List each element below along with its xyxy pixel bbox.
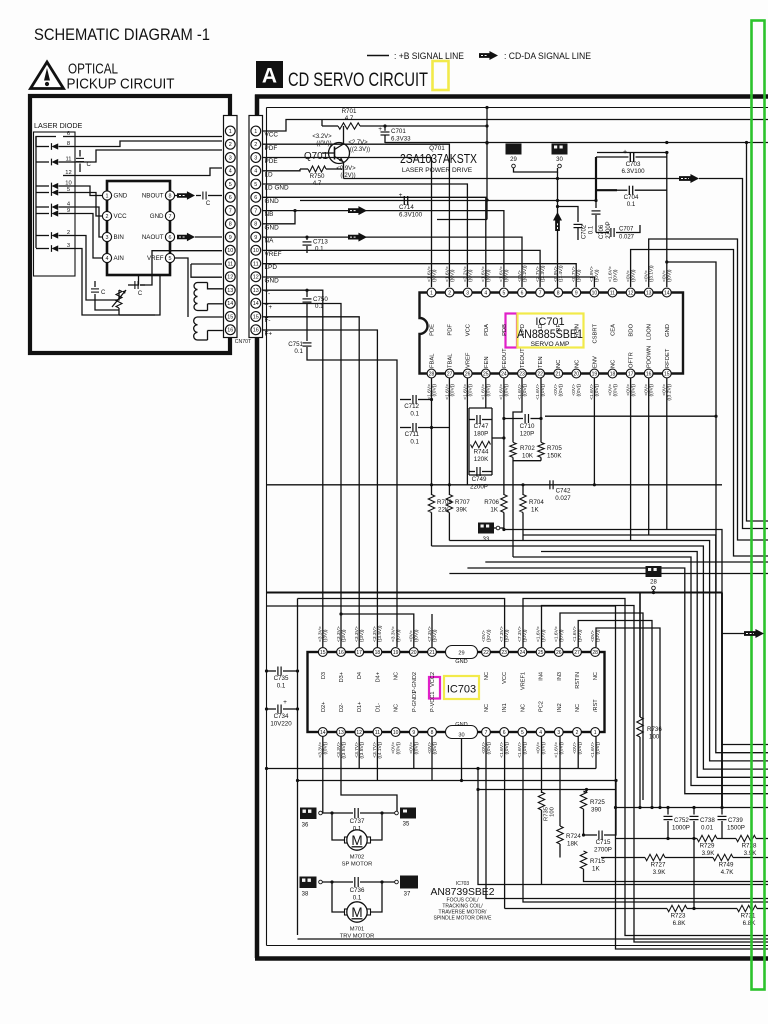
- wire y789 line: [478, 789, 616, 791]
- IC701 pin 22 TEN: [536, 369, 545, 378]
- svg-text:((3V)): ((3V)): [341, 629, 347, 642]
- IC703 pin 23 VCC: [500, 648, 509, 657]
- svg-text:LASER POWER DRIVE: LASER POWER DRIVE: [402, 167, 473, 174]
- svg-text:6: 6: [503, 730, 506, 736]
- svg-text:R705: R705: [547, 445, 562, 452]
- svg-text:VCC: VCC: [466, 324, 472, 336]
- svg-text:FEOUT: FEOUT: [502, 348, 508, 368]
- motor M701: [332, 882, 344, 912]
- resistor R705: [538, 442, 544, 457]
- svg-text:LDON: LDON: [647, 324, 653, 340]
- magenta highlight IC701: [506, 314, 518, 348]
- svg-text:27: 27: [574, 650, 580, 656]
- svg-text:NC: NC: [575, 704, 581, 712]
- wire NB to IC pin5: [263, 211, 504, 287]
- laser diode box: [34, 132, 76, 276]
- CN701 pin 5 LD GND: [251, 179, 261, 189]
- svg-text:35: 35: [403, 822, 410, 828]
- capacitor C749: [469, 471, 475, 473]
- svg-text:R725: R725: [590, 799, 605, 806]
- IC703 pin 10 NC: [391, 728, 400, 737]
- IC703 pin 5 NC: [518, 728, 527, 737]
- resistor R707: [446, 495, 452, 513]
- svg-text:C706: C706: [599, 224, 605, 239]
- wire pin4 drop: [541, 737, 543, 781]
- svg-text:FEN: FEN: [484, 356, 490, 368]
- svg-text:NC: NC: [520, 704, 526, 712]
- svg-text:((0V)): ((0V)): [431, 269, 437, 282]
- pickup IC pin 2 VCC: [102, 211, 111, 220]
- wire C738 drop: [693, 839, 695, 909]
- connector 35: [395, 811, 399, 815]
- svg-text:C742: C742: [556, 488, 571, 495]
- svg-text:1K: 1K: [490, 507, 498, 514]
- IC703 pin 1 /RST: [591, 728, 600, 737]
- CN701 pin 2 PDF: [251, 139, 261, 149]
- IC703 pin 20 P-GND2: [409, 648, 418, 657]
- svg-text:R727: R727: [651, 862, 666, 869]
- svg-text:R729: R729: [700, 843, 715, 850]
- svg-text:M702: M702: [350, 855, 365, 861]
- resistor R749: [713, 854, 733, 860]
- wire long y485: [267, 484, 723, 486]
- svg-text:C703: C703: [626, 161, 641, 168]
- wire T- down: [263, 290, 323, 647]
- CN70T pin 2: [225, 139, 235, 149]
- pickup wiring: [74, 136, 222, 138]
- capacitor C712: [400, 399, 411, 401]
- resistor R728: [736, 835, 756, 841]
- section label A: [256, 61, 283, 88]
- svg-text:8: 8: [557, 290, 560, 296]
- svg-text:C702: C702: [582, 224, 588, 239]
- connector 28: [646, 566, 662, 577]
- svg-text:28: 28: [592, 650, 598, 656]
- svg-text:AIN: AIN: [114, 255, 124, 262]
- CD-DA arrow right-top: [344, 178, 680, 180]
- CN701 pin 1 VCC: [251, 126, 261, 136]
- svg-text:SPINDLE MOTOR DRIVE: SPINDLE MOTOR DRIVE: [434, 915, 493, 921]
- svg-text:GND: GND: [114, 193, 128, 200]
- CN70T pin 11: [225, 259, 235, 269]
- capacitor C752: [667, 808, 669, 815]
- wire y807 rail: [616, 807, 768, 809]
- svg-text:((0V)): ((0V)): [449, 269, 455, 282]
- svg-text:26: 26: [556, 650, 562, 656]
- svg-text:14: 14: [253, 301, 259, 307]
- svg-text:F-: F-: [265, 317, 271, 324]
- connector CN70T left column: [224, 116, 238, 338]
- IC703 pin 12 D1+: [355, 728, 364, 737]
- svg-text:NC: NC: [394, 672, 400, 680]
- wire C702 branch: [558, 207, 579, 223]
- IC701 pin 20 NC: [572, 369, 581, 378]
- IC703 pin 29 GND oval: [446, 646, 478, 659]
- svg-text:((0V)): ((0V)): [414, 629, 420, 642]
- IC703 pin 27 RSTIN: [573, 648, 582, 657]
- resistor R736: [637, 717, 643, 737]
- capacitor C703: [596, 156, 629, 158]
- pickup IC pin 7 GND: [165, 211, 174, 220]
- svg-text:P-GND2: P-GND2: [412, 672, 418, 693]
- svg-text:1000P: 1000P: [672, 825, 690, 832]
- svg-text:0.1: 0.1: [410, 411, 419, 418]
- svg-text:VREF1: VREF1: [520, 672, 526, 690]
- svg-text:((0V)): ((0V)): [323, 742, 329, 755]
- resistor R750: [308, 166, 326, 172]
- wire C701 rail: [385, 142, 768, 144]
- svg-text:24: 24: [501, 371, 507, 377]
- svg-text:NC: NC: [593, 672, 599, 680]
- resistor R702: [510, 442, 516, 457]
- svg-text:C751: C751: [288, 341, 303, 348]
- svg-text:GND: GND: [665, 324, 671, 337]
- IC701 pin 24 FEOUT: [500, 369, 509, 378]
- IC703 pin 14 D2+: [318, 728, 327, 737]
- svg-text:11: 11: [610, 290, 615, 296]
- svg-text:6: 6: [169, 235, 172, 241]
- wire PDF to IC pin2: [263, 144, 449, 287]
- resistor R715: [580, 851, 586, 869]
- CN70T pin 12: [225, 272, 235, 282]
- svg-text:LPD: LPD: [520, 324, 526, 335]
- svg-text:((0V)): ((0V)): [432, 629, 438, 642]
- capacitor C742: [549, 480, 551, 489]
- svg-text:C701: C701: [391, 128, 406, 135]
- svg-text:OFTR: OFTR: [629, 352, 635, 368]
- pickup IC pin 5 VREF: [165, 253, 174, 262]
- svg-text:RF: RF: [556, 324, 562, 332]
- svg-text:17: 17: [628, 371, 634, 377]
- connector 37: [395, 880, 399, 884]
- CN701 pin 9 NA: [251, 232, 261, 242]
- svg-text:0.01: 0.01: [701, 825, 714, 832]
- wire y614 rail: [341, 614, 414, 647]
- resistor R723: [667, 905, 687, 911]
- svg-text:30: 30: [458, 733, 464, 739]
- wire pin12 drop to TRV: [358, 737, 360, 769]
- resistor R725: [584, 790, 587, 793]
- svg-text:15: 15: [320, 650, 326, 656]
- svg-text:13: 13: [253, 288, 259, 294]
- svg-text:((0V)): ((0V)): [612, 269, 618, 282]
- transistor Q701: [329, 143, 350, 164]
- CN701 pin 3 PDE: [251, 153, 261, 163]
- svg-text:C738: C738: [700, 817, 715, 824]
- svg-text:9: 9: [412, 730, 415, 736]
- svg-text:((0V)): ((0V)): [558, 384, 564, 397]
- IC703 pin 24 VREF1: [518, 648, 527, 657]
- wire bracket pin25: [560, 613, 643, 800]
- wire y768 rail: [267, 768, 597, 770]
- capacitor C near laser diode: [79, 150, 81, 157]
- wire pin12 up-over-down: [631, 250, 768, 557]
- svg-text:10: 10: [592, 290, 598, 296]
- svg-text:13: 13: [646, 290, 652, 296]
- svg-text:18K: 18K: [567, 841, 579, 848]
- CN701 pin 13 T-: [251, 285, 261, 295]
- svg-text:VREF: VREF: [466, 352, 472, 368]
- IC703 pin 22 NC: [482, 648, 491, 657]
- svg-text:Q701: Q701: [429, 145, 445, 152]
- wire right rail drop x746: [747, 143, 768, 522]
- CN70T pin 1: [225, 126, 235, 136]
- svg-text:D2+: D2+: [321, 702, 327, 712]
- capacitor C750: [305, 289, 308, 292]
- CD-DA arrow up: [553, 212, 562, 231]
- wire y908 rail: [505, 908, 667, 910]
- svg-text:19: 19: [393, 650, 399, 656]
- IC701 pin 21 NC: [554, 369, 563, 378]
- CN701 pin 7 NB: [251, 206, 261, 216]
- CN70T pin 3: [225, 153, 235, 163]
- svg-text:R715: R715: [590, 858, 605, 865]
- CN70T pin 13: [225, 285, 235, 295]
- capacitor C747 network: [469, 407, 492, 409]
- IC701 pin 15 RFDET: [662, 369, 671, 378]
- svg-text:((0V)): ((0V)): [486, 384, 492, 397]
- svg-text:<3.2V>: <3.2V>: [312, 134, 332, 140]
- svg-text:((3V)): ((3V)): [323, 629, 329, 642]
- svg-text:22: 22: [537, 371, 543, 377]
- svg-text:((3.5V)): ((3.5V)): [359, 742, 365, 759]
- svg-text:C713: C713: [313, 239, 328, 246]
- wire GND12: [263, 277, 594, 287]
- wire y416 rail: [545, 415, 716, 417]
- svg-text:6: 6: [254, 195, 257, 201]
- svg-text:GND: GND: [150, 213, 164, 220]
- svg-text:1: 1: [229, 129, 232, 135]
- svg-text:6.3V100: 6.3V100: [399, 212, 423, 219]
- resistor R704: [522, 485, 524, 495]
- svg-text:PICKUP CIRCUIT: PICKUP CIRCUIT: [67, 76, 175, 93]
- svg-text:((0V)): ((0V)): [667, 269, 673, 282]
- CN701 pin 11 LPD: [251, 259, 261, 269]
- svg-text:PDA: PDA: [484, 324, 490, 336]
- capacitor C bottom of pickup IC: [128, 284, 133, 286]
- wire long y200: [300, 200, 596, 202]
- svg-text:13: 13: [227, 288, 233, 294]
- wire pin14 drop to SP: [322, 737, 324, 814]
- capacitor C738: [693, 808, 695, 815]
- IC701 pin 3 VCC: [463, 288, 472, 297]
- svg-text:3.9K: 3.9K: [702, 850, 716, 857]
- wire FBAL drop: [431, 378, 433, 495]
- svg-text:1K: 1K: [592, 866, 600, 873]
- wire bracket pin24: [542, 606, 768, 943]
- wire vertical x487: [486, 108, 488, 220]
- capacitor C735: [265, 669, 268, 672]
- connector CN701 right column: [249, 116, 263, 338]
- svg-text:TEOUT: TEOUT: [520, 348, 526, 368]
- svg-text:VCC: VCC: [114, 213, 128, 220]
- svg-text:IN3: IN3: [557, 672, 563, 681]
- wire y780 rail: [298, 780, 617, 782]
- wire pin11 drop: [376, 737, 378, 781]
- svg-text:150K: 150K: [547, 453, 562, 460]
- svg-text:R706: R706: [484, 499, 499, 506]
- wire pin5 drop: [523, 737, 768, 903]
- yellow highlight near title: [433, 61, 449, 90]
- CN70T pin 8: [225, 219, 235, 229]
- svg-text:R708: R708: [437, 499, 452, 506]
- resistor R744: [471, 441, 491, 447]
- IC703 pin 2 NC: [573, 728, 582, 737]
- svg-text:F+: F+: [265, 330, 273, 337]
- svg-text:15: 15: [664, 371, 670, 377]
- IC701 pin 6 LPD: [518, 288, 527, 297]
- svg-text:C735: C735: [274, 675, 289, 682]
- capacitor C704: [617, 189, 627, 191]
- svg-text:2: 2: [229, 142, 232, 148]
- svg-text:9: 9: [575, 290, 578, 296]
- svg-text:C: C: [138, 291, 143, 297]
- CD servo circuit border: [255, 94, 768, 99]
- wire pin21 drop: [431, 614, 433, 647]
- wire pin7 drop: [486, 737, 768, 899]
- svg-text:SERVO AMP: SERVO AMP: [531, 341, 570, 348]
- IC701 pin 18 NC: [608, 369, 617, 378]
- svg-text:0.1: 0.1: [589, 225, 595, 234]
- svg-text:: CD-DA SIGNAL LINE: : CD-DA SIGNAL LINE: [504, 51, 591, 61]
- wire T+ down: [263, 304, 341, 648]
- wire staircase bundle: [504, 530, 768, 745]
- svg-text:((0V)): ((0V)): [649, 384, 655, 397]
- svg-text:C715: C715: [596, 839, 611, 846]
- wire staircase extra exits: [485, 561, 768, 563]
- svg-text:9: 9: [229, 235, 232, 241]
- wire pin13 drop: [341, 737, 397, 814]
- svg-text:14: 14: [320, 730, 326, 736]
- CN701 pin 16 F+: [251, 325, 261, 335]
- wire bracket pin23: [523, 599, 768, 936]
- IC701 pin 26 VREF: [463, 369, 472, 378]
- svg-text:((0V)): ((0V)): [449, 384, 455, 397]
- svg-text:((0V)): ((0V)): [594, 384, 600, 397]
- svg-text:IC703: IC703: [447, 684, 476, 696]
- svg-text:R704: R704: [529, 499, 544, 506]
- svg-text:7: 7: [539, 290, 542, 296]
- svg-text:TEN: TEN: [538, 356, 544, 368]
- svg-text:D3+: D3+: [339, 672, 345, 682]
- wire VREF to right: [263, 250, 540, 287]
- IC701 pin 1 PDE: [427, 288, 436, 297]
- svg-text:((0V)): ((0V)): [468, 384, 474, 397]
- svg-text:((0V)): ((0V)): [630, 269, 636, 282]
- svg-text:((0V)): ((0V)): [395, 742, 401, 755]
- svg-text:R702: R702: [520, 445, 535, 452]
- wire LD to Q701 base: [263, 169, 300, 171]
- wire LD GND: [263, 184, 467, 287]
- svg-text:4: 4: [484, 290, 487, 296]
- IC701 pin 7 LD: [536, 288, 545, 297]
- svg-text:390: 390: [591, 807, 602, 814]
- coil lower: [198, 316, 223, 318]
- capacitor C706: [592, 210, 601, 212]
- svg-text:4: 4: [106, 256, 109, 262]
- svg-text:16: 16: [646, 371, 652, 377]
- IC703 pin 25 IN4: [536, 648, 545, 657]
- svg-text:((0V)): ((0V)): [577, 629, 583, 642]
- svg-text:0.027: 0.027: [555, 495, 571, 502]
- svg-text:C736: C736: [350, 887, 365, 894]
- svg-text:4.7K: 4.7K: [721, 869, 735, 876]
- CN70T pin 9: [225, 232, 235, 242]
- wire pin8 drop: [431, 737, 433, 781]
- svg-text:((1.4V)): ((1.4V)): [558, 265, 564, 282]
- svg-text:6: 6: [229, 195, 232, 201]
- pickup IC pin 8 NBOUT: [165, 191, 174, 200]
- svg-text:10K: 10K: [522, 453, 534, 460]
- svg-text:12: 12: [227, 275, 233, 281]
- svg-text:29: 29: [458, 651, 464, 657]
- capacitor C after NBOUT: [196, 195, 201, 197]
- svg-text:BDO: BDO: [629, 324, 635, 337]
- IC703 pin 8 P-VCC1: [428, 728, 437, 737]
- svg-text:SP MOTOR: SP MOTOR: [342, 862, 373, 868]
- svg-text:+: +: [623, 149, 627, 156]
- wire TEOUT jog: [513, 378, 522, 442]
- svg-text:Q701: Q701: [304, 151, 328, 162]
- svg-text:((0V)): ((0V)): [559, 629, 565, 642]
- wire x297 vertical: [297, 599, 299, 936]
- capacitor C734: [265, 707, 268, 710]
- wire pin15 drop: [666, 378, 668, 530]
- CN701 pin 15 F-: [251, 312, 261, 322]
- capacitor C714: [403, 196, 405, 205]
- svg-text:100: 100: [649, 734, 660, 741]
- IC701 pin 10 CSBRT: [590, 288, 599, 297]
- svg-text:((0V)): ((0V)): [504, 629, 510, 642]
- svg-text:((3.1V)): ((3.1V)): [649, 265, 655, 282]
- svg-text:NBOUT: NBOUT: [142, 193, 164, 200]
- svg-text:23: 23: [519, 371, 525, 377]
- IC703 pin 19 NC: [391, 648, 400, 657]
- svg-text:28: 28: [429, 371, 435, 377]
- svg-text:AN8739SBE2: AN8739SBE2: [431, 887, 495, 898]
- svg-text:NB: NB: [265, 211, 274, 218]
- svg-text:NC: NC: [556, 360, 562, 368]
- svg-text:+: +: [283, 699, 287, 706]
- svg-text:C750: C750: [313, 296, 328, 303]
- capacitor C710: [504, 418, 523, 420]
- svg-text:4: 4: [254, 169, 257, 175]
- svg-text:C711: C711: [405, 431, 420, 438]
- resistor R708: [428, 495, 434, 513]
- svg-text:100: 100: [550, 807, 556, 817]
- wire bold junction x596: [595, 157, 597, 201]
- svg-text:14: 14: [227, 301, 233, 307]
- capacitor C739: [721, 808, 723, 815]
- svg-text:0.1: 0.1: [294, 348, 303, 355]
- capacitor C702: [574, 223, 583, 225]
- svg-text:C752: C752: [674, 817, 689, 824]
- wire pin3 drop: [559, 737, 561, 823]
- svg-text:3: 3: [557, 730, 560, 736]
- CN70T pin 7: [225, 206, 235, 216]
- svg-text:18: 18: [375, 650, 381, 656]
- wire motor frame: [298, 938, 768, 940]
- svg-text:((0V)): ((0V)): [504, 269, 510, 282]
- IC703 pin 3 IN2: [554, 728, 563, 737]
- svg-text:30: 30: [556, 157, 563, 163]
- svg-text:+: +: [378, 126, 382, 133]
- svg-text:0.1: 0.1: [627, 201, 636, 208]
- svg-text:M: M: [351, 833, 362, 848]
- wire pin6 drop: [504, 737, 506, 909]
- wire oval30 drop: [461, 739, 463, 781]
- svg-text:20: 20: [411, 650, 417, 656]
